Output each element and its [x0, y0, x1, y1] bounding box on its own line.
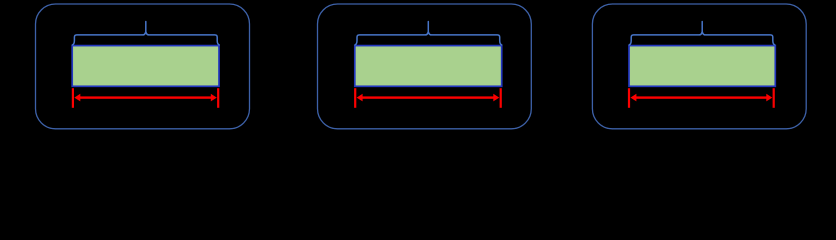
panel 2 width brace [355, 32, 502, 45]
panel 2 outer rounded rect [318, 4, 532, 129]
panel 1 brace stem [145, 22, 147, 32]
panel 2 dimension left bar [354, 88, 356, 108]
panel 3 dimension left arrowhead [630, 94, 636, 102]
panel 3 content box (green) [629, 46, 775, 87]
panel 2 dimension right arrowhead [493, 94, 499, 102]
panel 3 brace stem [701, 22, 703, 32]
panel 1 outer rounded rect [36, 4, 250, 129]
panel 3 dimension right bar [773, 88, 775, 108]
panel 3 width brace [629, 32, 775, 45]
panel 2 dimension left arrowhead [357, 94, 363, 102]
panel 1 dimension left bar [72, 88, 74, 108]
panel 1 content box (green) [72, 46, 219, 87]
panel 1 dimension left arrowhead [74, 94, 80, 102]
panel 3 outer rounded rect [592, 4, 806, 129]
panel 1 dimension right arrowhead [211, 94, 217, 102]
panel 2 dimension line [361, 96, 495, 98]
panel 2 brace stem [427, 22, 429, 32]
panel 2 dimension right bar [500, 88, 502, 108]
panel 1 dimension line [79, 96, 213, 98]
panel 1 width brace [72, 32, 219, 45]
panel 3 dimension right arrowhead [766, 94, 772, 102]
panel 2 content box (green) [355, 46, 502, 87]
panel 1 dimension right bar [217, 88, 219, 108]
panel 3 dimension line [635, 96, 769, 98]
panel 3 dimension left bar [628, 88, 630, 108]
